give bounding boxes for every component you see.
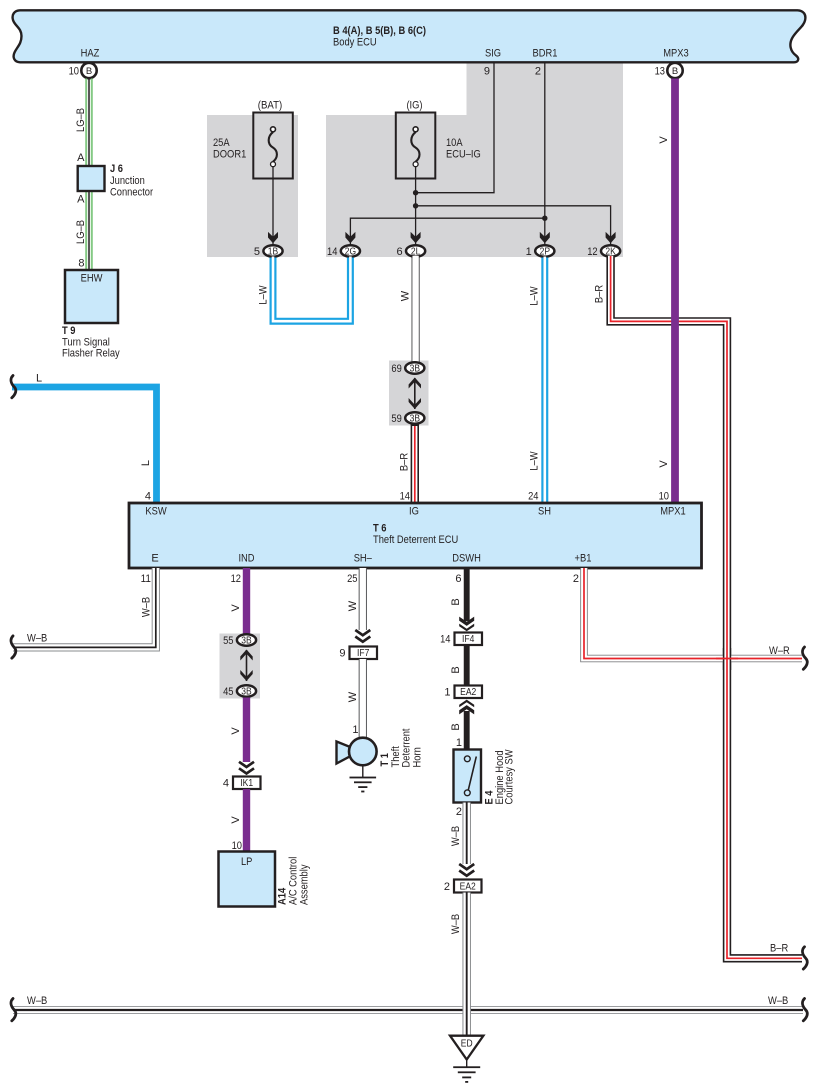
wire B-R continuity at W-R crossing [723, 648, 731, 670]
svg-text:2G: 2G [345, 246, 356, 257]
svg-text:B 4(A), B 5(B), B 6(C): B 4(A), B 5(B), B 6(C) [333, 25, 426, 37]
svg-text:3B: 3B [241, 686, 252, 697]
svg-text:2P: 2P [540, 246, 551, 257]
svg-text:14: 14 [400, 491, 410, 503]
svg-text:45: 45 [223, 686, 233, 698]
connector 2 EA2 [454, 880, 482, 893]
arrow pair 3B to 3B [246, 650, 248, 681]
wire W-B bottom horizontal [13, 1006, 803, 1014]
wire B-R 2K to right edge [611, 258, 802, 959]
svg-text:13: 13 [655, 66, 665, 78]
svg-text:B: B [450, 723, 462, 730]
junction dot A [413, 190, 418, 195]
svg-text:MPX3: MPX3 [663, 48, 689, 60]
break symbol W-B bottom right [802, 999, 807, 1021]
arrow into 2K [606, 232, 616, 243]
svg-text:EHW: EHW [81, 273, 103, 285]
svg-text:W–B: W–B [450, 914, 462, 934]
svg-text:9: 9 [484, 66, 490, 78]
svg-text:59: 59 [391, 413, 401, 425]
svg-text:14: 14 [440, 634, 450, 646]
svg-text:IK1: IK1 [240, 778, 253, 789]
wire W-B EA2 to ED ground [462, 893, 471, 1037]
svg-text:Horn: Horn [412, 747, 424, 767]
svg-text:1: 1 [444, 687, 450, 699]
svg-text:L–W: L–W [529, 451, 541, 471]
wire V MPX3 to MPX1 [671, 79, 679, 504]
break symbol W-R right [802, 647, 807, 669]
svg-text:T 6: T 6 [373, 523, 387, 535]
svg-text:W–R: W–R [769, 645, 790, 657]
svg-text:10: 10 [69, 66, 79, 78]
junction dot C (BDR1) [542, 216, 547, 221]
svg-text:B: B [450, 666, 462, 673]
svg-text:V: V [230, 727, 242, 735]
break symbol W-B bottom left [11, 999, 16, 1021]
svg-text:1: 1 [526, 246, 532, 258]
wire W-B from E to left edge [13, 568, 156, 647]
svg-text:(IG): (IG) [406, 100, 422, 112]
break symbol W-B left [11, 636, 16, 658]
break symbol L left [11, 376, 16, 398]
svg-text:L: L [140, 460, 152, 466]
chevron arrows into IK1 [239, 762, 254, 767]
svg-text:A: A [77, 194, 85, 206]
wire W-B switch to EA2 [462, 803, 471, 865]
wire branch B: to 2K [416, 206, 611, 246]
svg-text:W–B: W–B [768, 995, 788, 1007]
svg-text:12: 12 [231, 573, 241, 585]
chevron arrows into IF7 [355, 630, 370, 635]
svg-text:Theft Deterrent ECU: Theft Deterrent ECU [373, 534, 458, 546]
connector 1 EA2 [455, 686, 483, 699]
wire LG-B from HAZ to EHW [85, 79, 93, 271]
wire: fuse ECU-IG down to 2L [415, 166, 417, 246]
pin 13 circled B (MPX3) [667, 63, 682, 78]
svg-text:KSW: KSW [145, 506, 167, 518]
shading block connectors 3B IG column [389, 361, 429, 426]
wire W IF7 to horn [359, 659, 367, 738]
svg-text:10: 10 [232, 840, 242, 852]
svg-text:10A: 10A [446, 137, 463, 149]
svg-text:2: 2 [456, 806, 462, 818]
svg-text:Flasher Relay: Flasher Relay [62, 348, 120, 360]
wire B IF4 to EA2 [464, 645, 470, 686]
wire W-R red over crossing [716, 658, 738, 660]
svg-text:Courtesy SW: Courtesy SW [504, 749, 516, 805]
connector 14 IF4 [455, 633, 483, 646]
svg-text:Connector: Connector [110, 187, 153, 199]
svg-text:B: B [672, 66, 678, 77]
ground ED [450, 1036, 483, 1060]
relay box EHW (T9) [65, 270, 118, 323]
svg-text:SH: SH [538, 506, 551, 518]
svg-text:LG–B: LG–B [75, 220, 87, 244]
svg-text:W: W [347, 600, 359, 611]
junction dot B [413, 203, 418, 208]
svg-text:LG–B: LG–B [75, 108, 87, 132]
svg-text:W–B: W–B [27, 633, 47, 645]
arrow into 1B [268, 232, 278, 243]
svg-text:2L: 2L [411, 246, 421, 257]
arrow into 2L [411, 232, 421, 243]
connector 12 2K [601, 245, 620, 256]
svg-text:(BAT): (BAT) [258, 100, 282, 112]
connector 1 2P [535, 245, 554, 256]
svg-text:14: 14 [327, 246, 337, 258]
svg-text:IF7: IF7 [357, 648, 370, 659]
svg-text:SIG: SIG [485, 48, 501, 60]
svg-text:IF4: IF4 [462, 634, 475, 645]
svg-text:L–W: L–W [258, 285, 270, 305]
svg-text:ECU–IG: ECU–IG [446, 149, 481, 161]
svg-text:1B: 1B [268, 246, 279, 257]
svg-text:LP: LP [241, 856, 252, 868]
svg-text:2K: 2K [605, 246, 616, 257]
solid chevrons up out of EA2 [459, 700, 474, 708]
switch E4 engine hood courtesy [454, 750, 482, 803]
svg-text:W: W [400, 290, 412, 301]
wire branch C: 2G to BDR1 [350, 218, 544, 245]
svg-text:3B: 3B [241, 635, 252, 646]
svg-text:J 6: J 6 [110, 163, 123, 175]
shading block fuse ECU-IG / SIG / BDR1 [326, 62, 623, 257]
wire L thick to KSW [12, 387, 157, 503]
horn T1 [337, 742, 352, 764]
connector 45 3B [237, 685, 256, 696]
wire V IND to 3B [243, 568, 250, 634]
svg-text:MPX1: MPX1 [660, 506, 686, 518]
svg-text:4: 4 [145, 491, 151, 503]
svg-text:HAZ: HAZ [81, 48, 100, 60]
svg-text:W–B: W–B [27, 995, 47, 1007]
svg-text:V: V [230, 604, 242, 612]
wire BDR1: pin 2 down to 2P [544, 62, 546, 246]
wire B DSWH to IF4 [464, 568, 470, 621]
wire B EA2 to hood switch [464, 711, 470, 750]
svg-text:6: 6 [455, 573, 461, 585]
svg-text:SH–: SH– [354, 553, 373, 565]
chevron arrows into EA2 [459, 864, 474, 869]
svg-text:5: 5 [254, 246, 260, 258]
solid chevrons into IF4 [459, 617, 474, 626]
svg-text:11: 11 [141, 573, 151, 585]
wire W SH- to IF7 [359, 568, 367, 630]
wire W 2L to 3B [411, 258, 419, 363]
ground horn [362, 765, 364, 777]
svg-text:T 9: T 9 [62, 325, 76, 337]
svg-text:W–B: W–B [141, 597, 153, 617]
svg-text:1: 1 [352, 724, 358, 736]
connector 5 1B [263, 245, 282, 256]
svg-text:Body ECU: Body ECU [333, 37, 377, 49]
svg-text:3B: 3B [410, 363, 421, 374]
svg-text:69: 69 [391, 363, 401, 375]
svg-text:IND: IND [238, 553, 254, 565]
junction connector J6 [78, 166, 105, 191]
svg-text:6: 6 [396, 246, 402, 258]
svg-text:B–R: B–R [594, 285, 606, 303]
box LP A/C control assembly [219, 852, 276, 907]
svg-text:55: 55 [223, 635, 233, 647]
svg-text:4: 4 [223, 778, 229, 790]
connector 6 2L [406, 245, 425, 256]
svg-text:10: 10 [659, 491, 669, 503]
wire SIG: pin 9 down to junction [416, 62, 494, 193]
svg-text:V: V [658, 136, 670, 144]
svg-text:2: 2 [573, 573, 579, 585]
svg-text:W–B: W–B [450, 826, 462, 846]
svg-text:9: 9 [339, 648, 345, 660]
svg-text:DOOR1: DOOR1 [213, 149, 246, 161]
wire L-W 2P to SH [541, 258, 548, 504]
svg-text:B–R: B–R [770, 943, 788, 955]
wire V 3B to IK1 [243, 698, 250, 763]
svg-text:EA2: EA2 [460, 882, 476, 893]
svg-text:L–W: L–W [529, 286, 541, 306]
svg-text:12: 12 [587, 246, 597, 258]
svg-text:2: 2 [535, 66, 541, 78]
svg-text:Junction: Junction [110, 175, 145, 187]
svg-text:E: E [151, 553, 158, 565]
shading block connectors 3B IND column [220, 634, 261, 699]
wire V IK1 to LP [243, 789, 250, 852]
svg-text:L: L [36, 373, 42, 385]
svg-text:EA2: EA2 [460, 687, 476, 698]
Body ECU banner [13, 10, 806, 62]
break symbol B-R right [802, 947, 807, 969]
svg-text:W: W [347, 691, 359, 702]
svg-text:DSWH: DSWH [452, 553, 481, 565]
pin 10 circled B (HAZ) [81, 63, 96, 78]
wire W-R +B1 to right edge [584, 568, 802, 659]
svg-text:Assembly: Assembly [299, 864, 311, 905]
svg-text:2: 2 [444, 881, 450, 893]
arrow into 2G [345, 232, 355, 243]
fuse 25A DOOR1 [253, 113, 292, 179]
fuse 10A ECU-IG [396, 113, 436, 179]
wire L-W loop 1B to 2G [273, 258, 350, 322]
wire B-R 3B to IG pin [411, 425, 419, 504]
connector 55 3B [237, 634, 256, 645]
svg-text:3B: 3B [410, 413, 421, 424]
wire: fuse DOOR1 down to 1B [272, 166, 274, 246]
connector 69 3B [405, 362, 424, 373]
svg-text:25: 25 [347, 573, 357, 585]
svg-text:25A: 25A [213, 137, 230, 149]
arrow into 2P [540, 232, 550, 243]
svg-text:V: V [658, 460, 670, 468]
connector 9 IF7 [350, 647, 378, 660]
shading block fuse DOOR1 [207, 115, 298, 257]
svg-text:B: B [450, 598, 462, 605]
ECU box T6 [129, 503, 702, 568]
svg-text:24: 24 [528, 491, 538, 503]
svg-text:A: A [77, 152, 85, 164]
svg-text:V: V [230, 816, 242, 824]
svg-text:ED: ED [461, 1039, 473, 1050]
svg-text:B: B [86, 66, 92, 77]
svg-text:BDR1: BDR1 [533, 48, 558, 60]
svg-text:IG: IG [409, 506, 419, 518]
svg-text:8: 8 [78, 258, 84, 270]
connector 59 3B [405, 412, 424, 423]
connector 4 IK1 [233, 777, 261, 790]
svg-text:B–R: B–R [399, 453, 411, 471]
svg-text:+B1: +B1 [575, 553, 592, 565]
arrow pair 3B to 3B [414, 378, 416, 409]
connector 14 2G [341, 245, 360, 256]
svg-text:1: 1 [456, 737, 462, 749]
